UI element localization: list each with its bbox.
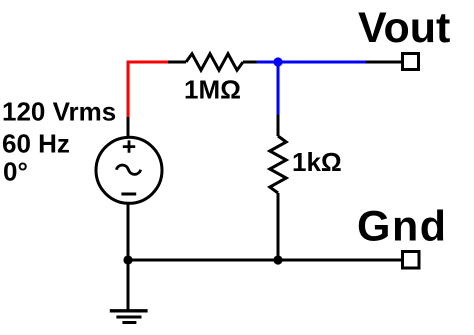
label: R2 value 1k&#937; bbox=[292, 147, 342, 177]
svg-text:60 Hz: 60 Hz bbox=[2, 129, 70, 159]
source V1: plus mark bbox=[123, 140, 135, 152]
ground symbol bbox=[110, 311, 148, 323]
svg-text:Gnd: Gnd bbox=[357, 203, 447, 251]
svg-text:1kΩ: 1kΩ bbox=[292, 147, 342, 177]
wire: top-left corner red (source + to R1) bbox=[128, 62, 169, 118]
resistor R1 bbox=[186, 54, 243, 70]
wire: black segment blue net to R2 top lead bbox=[277, 115, 280, 136]
node: junction source/ground rail (black dot) bbox=[123, 255, 132, 264]
svg-text:1MΩ: 1MΩ bbox=[184, 75, 241, 105]
label: R1 value 1M&#937; bbox=[184, 75, 241, 105]
wire: black segment red wire to R1 left lead bbox=[168, 61, 186, 64]
node: junction R2/ground rail (black dot) bbox=[273, 255, 282, 264]
wire: black segment from red wire into source top bbox=[127, 117, 130, 138]
wire: blue net from R1 to Vout (through node) bbox=[257, 61, 366, 64]
svg-text:Vout: Vout bbox=[358, 4, 450, 52]
svg-text:0°: 0° bbox=[3, 157, 28, 187]
source V1: minus mark bbox=[121, 193, 136, 196]
svg-text:120 Vrms: 120 Vrms bbox=[2, 97, 116, 127]
label: Gnd bbox=[357, 203, 447, 251]
node: output junction (blue dot) bbox=[273, 57, 282, 66]
wire: source bottom to ground/rail bbox=[127, 204, 130, 310]
source V1: AC voltage source circle bbox=[96, 137, 162, 203]
terminal: Gnd port square bbox=[403, 252, 420, 269]
terminal: Vout port square bbox=[403, 54, 419, 70]
source V1: sine mark bbox=[116, 165, 140, 174]
wire: R2 bottom lead to ground rail bbox=[277, 193, 280, 260]
label: source parameters 120 Vrms / 60 Hz / 0deg bbox=[2, 97, 116, 187]
label: Vout bbox=[358, 4, 450, 52]
wire: bottom ground rail to Gnd terminal bbox=[128, 259, 402, 262]
wire: black lead into Vout terminal bbox=[365, 61, 402, 64]
wire: R1 right lead black bbox=[243, 61, 258, 64]
wire: blue vertical from node down toward R2 bbox=[277, 62, 280, 115]
resistor R2 bbox=[270, 136, 286, 193]
